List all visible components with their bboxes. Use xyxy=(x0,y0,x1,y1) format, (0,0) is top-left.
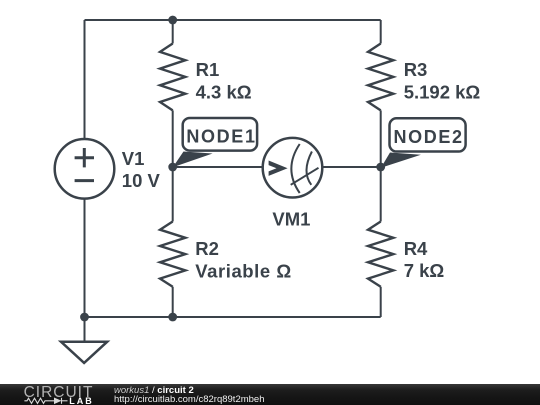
resistor R4 xyxy=(368,222,393,287)
svg-text:NODE1: NODE1 xyxy=(186,127,256,147)
svg-text:R1: R1 xyxy=(196,59,220,80)
voltmeter VM1 label xyxy=(272,208,310,229)
wire middle right (VM1 to node2) xyxy=(323,166,381,168)
junction dot top (R1/top rail) xyxy=(168,16,177,25)
svg-text:4.3 kΩ: 4.3 kΩ xyxy=(196,81,252,102)
junction dot NODE1 xyxy=(168,163,177,172)
svg-text:5.192 kΩ: 5.192 kΩ xyxy=(404,82,481,103)
wire bottom rail xyxy=(85,316,381,318)
wire R4 bottom lead xyxy=(380,287,382,317)
footer text line 1 xyxy=(114,385,194,396)
wire middle left (node1 to VM1) xyxy=(173,166,262,168)
wire ground lead xyxy=(84,317,86,341)
svg-text:Variable Ω: Variable Ω xyxy=(195,260,291,281)
node NODE1 flag xyxy=(173,118,257,167)
svg-text:LAB: LAB xyxy=(69,396,94,405)
svg-text:VM1: VM1 xyxy=(272,208,310,229)
junction dot NODE2 xyxy=(376,163,385,172)
wire V1 top lead xyxy=(84,20,86,140)
resistor R1 xyxy=(160,44,185,111)
CircuitLab logo xyxy=(0,384,110,405)
svg-text:R2: R2 xyxy=(195,238,219,259)
wire R2 bottom lead xyxy=(172,287,174,317)
junction dot bottom (R2/bottom rail) xyxy=(168,313,177,322)
resistor R3 xyxy=(368,44,393,111)
resistor R2 labels xyxy=(195,238,291,281)
voltage source V1 xyxy=(55,139,115,199)
voltage source V1 labels xyxy=(122,148,161,191)
svg-text:R3: R3 xyxy=(404,59,428,80)
svg-text:7 kΩ: 7 kΩ xyxy=(404,260,445,281)
wire R2 top lead xyxy=(172,167,174,222)
svg-text:V1: V1 xyxy=(122,148,145,169)
node NODE2 flag xyxy=(381,118,466,168)
wire top rail xyxy=(85,19,381,21)
footer text line 2 xyxy=(114,394,265,405)
svg-text:10 V: 10 V xyxy=(122,170,161,191)
resistor R2 xyxy=(160,222,185,287)
wire R3 top lead xyxy=(380,20,382,44)
resistor R1 labels xyxy=(196,59,252,102)
wire R1 top lead xyxy=(172,20,174,44)
ground xyxy=(61,342,107,363)
wire R4 top lead xyxy=(380,167,382,222)
svg-text:NODE2: NODE2 xyxy=(393,127,463,147)
resistor R3 labels xyxy=(404,59,481,103)
resistor R4 labels xyxy=(404,238,445,281)
junction dot bottom left (V1/ground) xyxy=(80,313,89,322)
wire R1 bottom lead xyxy=(172,110,174,167)
wire R3 bottom lead xyxy=(380,110,382,167)
svg-text:R4: R4 xyxy=(404,238,428,259)
voltmeter VM1 xyxy=(263,138,323,198)
footer bar xyxy=(0,384,540,405)
wire V1 bottom lead xyxy=(84,198,86,317)
